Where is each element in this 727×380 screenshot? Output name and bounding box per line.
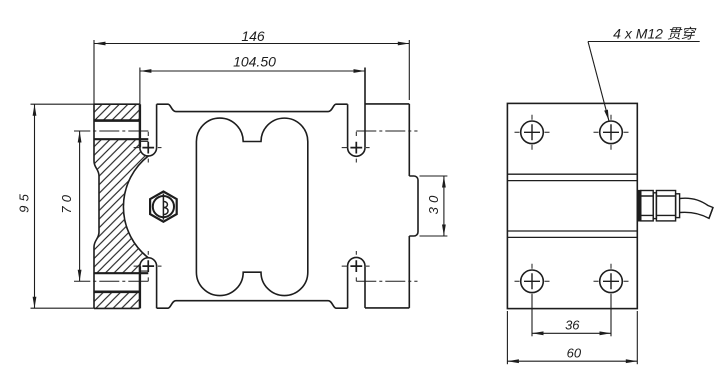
svg-text:60: 60 (567, 346, 582, 361)
svg-text:4 x M12 贯穿: 4 x M12 贯穿 (613, 26, 697, 42)
svg-text:36: 36 (565, 318, 580, 333)
svg-text:95: 95 (17, 190, 32, 213)
svg-text:30: 30 (426, 191, 441, 214)
svg-text:104.50: 104.50 (233, 54, 276, 70)
svg-text:70: 70 (59, 191, 74, 214)
svg-text:146: 146 (241, 28, 265, 44)
